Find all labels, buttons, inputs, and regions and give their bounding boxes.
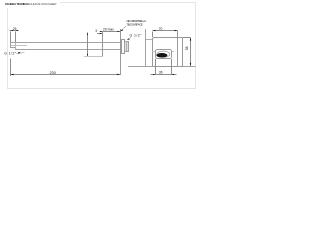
- inner vertical line: [177, 31, 179, 67]
- tile joint vertical: [145, 29, 147, 66]
- svg-text:- TECHNICAL DATA SHEET: - TECHNICAL DATA SHEET: [25, 2, 57, 6]
- svg-text:25: 25: [13, 27, 17, 31]
- dim 3: [97, 33, 102, 35]
- object line: [84, 56, 103, 58]
- svg-text:TILE SURFACE: TILE SURFACE: [127, 22, 143, 26]
- dim 70 (top): [153, 31, 178, 38]
- svg-text:58: 58: [185, 46, 189, 50]
- threaded pipe: [125, 42, 129, 52]
- vertical dim line: [87, 33, 89, 57]
- svg-text:G 1/2": G 1/2": [130, 34, 143, 38]
- svg-text:29 max: 29 max: [103, 28, 114, 32]
- cap right edge: [15, 42, 17, 50]
- wall line (tile surface): [120, 29, 122, 75]
- dim 29 max: [100, 31, 120, 33]
- extension line: [102, 32, 104, 57]
- svg-text:36: 36: [159, 71, 163, 75]
- dim 36 (bottom): [151, 59, 177, 75]
- arm cross-section: [156, 50, 172, 59]
- dim 25 (left top): [9, 31, 18, 43]
- wall plate front: [153, 38, 183, 67]
- svg-text:70: 70: [159, 27, 163, 31]
- arm tube bottom: [15, 49, 120, 51]
- wall flange side view: [122, 40, 125, 54]
- outlet end cap left edge: [10, 42, 12, 48]
- dim 230: [11, 59, 121, 76]
- centerline: [11, 45, 27, 47]
- outlet ellipse: [157, 51, 170, 57]
- svg-text:G 1/2": G 1/2": [4, 51, 17, 55]
- svg-text:3: 3: [95, 29, 97, 33]
- svg-text:230: 230: [50, 71, 56, 75]
- hidden line fragments: [153, 51, 156, 53]
- outlet end cap bottom: [10, 47, 16, 49]
- tile joint horizontal: [128, 66, 196, 68]
- arm tube top: [10, 42, 120, 44]
- dim 58 (right): [183, 38, 191, 67]
- border frame: [8, 3, 196, 89]
